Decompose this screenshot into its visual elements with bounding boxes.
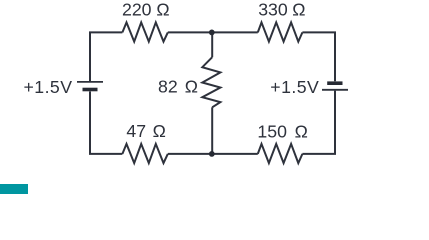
wire bottom-right segment — [302, 91, 335, 154]
battery B1 +1.5V left: short thick negative plate — [83, 88, 98, 92]
svg-text:Ω: Ω — [292, 0, 305, 19]
wire top-left segment — [90, 32, 122, 81]
wire bottom-left segment — [90, 92, 122, 154]
svg-text:Ω: Ω — [185, 76, 198, 96]
svg-text:82: 82 — [158, 76, 178, 96]
battery B2 +1.5V right: long thin positive plate — [322, 89, 348, 91]
svg-text:+1.5V: +1.5V — [270, 77, 319, 97]
hidden watermark bar (alpha-dropped teal) — [0, 184, 28, 194]
wire top-right segment — [302, 32, 335, 81]
svg-text:47: 47 — [126, 121, 146, 141]
resistor 150Ω — [258, 144, 303, 163]
svg-text:Ω: Ω — [156, 0, 169, 19]
svg-text:330: 330 — [258, 0, 288, 19]
wire middle branch upper — [211, 32, 213, 57]
svg-text:150: 150 — [257, 121, 287, 141]
node: bottom junction dot — [209, 151, 215, 157]
wire top-middle segment — [168, 31, 258, 33]
node: top junction dot — [209, 30, 215, 36]
svg-text:+1.5V: +1.5V — [24, 77, 73, 97]
wire middle branch lower — [211, 107, 213, 154]
battery B1 +1.5V left: long thin positive plate — [77, 81, 103, 83]
svg-text:Ω: Ω — [295, 121, 308, 141]
resistor 82Ω — [202, 57, 220, 107]
svg-text:220: 220 — [122, 0, 152, 19]
wire bottom-middle segment — [168, 153, 258, 155]
svg-text:Ω: Ω — [153, 121, 166, 141]
resistor 220Ω — [122, 22, 167, 41]
resistor 330Ω — [258, 22, 303, 41]
battery B2 +1.5V right: short thick negative plate — [327, 81, 342, 85]
resistor 47Ω — [122, 144, 167, 163]
